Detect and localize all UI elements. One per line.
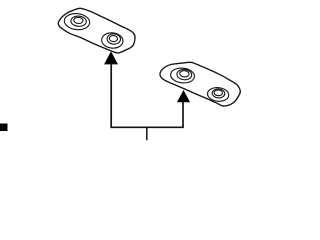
gasket 2 boss B outer ellipse xyxy=(207,87,230,103)
gasket 2 boss A middle ellipse xyxy=(177,69,192,80)
gasket plate 1 outline xyxy=(58,8,135,53)
gasket 1 boss A outer ellipse xyxy=(64,12,91,31)
gasket 1 boss A inner hole xyxy=(74,17,84,24)
arrowhead 2 (points up at gasket 2) xyxy=(177,90,190,102)
gasket plate 2 outline xyxy=(160,62,240,106)
gasket 1 boss B middle ellipse xyxy=(107,33,121,44)
arrow 2 shaft xyxy=(182,101,184,127)
watermark block at left edge xyxy=(0,124,8,132)
gasket 1 boss B outer ellipse xyxy=(101,32,124,49)
gasket 1 boss B inner hole xyxy=(109,35,118,42)
gasket 2 boss B inner hole xyxy=(214,90,223,96)
gasket 2 boss B middle ellipse xyxy=(212,88,225,98)
gasket 1 boss A middle ellipse xyxy=(71,16,87,27)
arrow 1 shaft xyxy=(110,63,112,127)
arrowhead 1 (points up at gasket 1) xyxy=(104,51,118,64)
gasket 2 boss A outer ellipse xyxy=(170,67,195,84)
gasket 2 boss A inner hole xyxy=(180,70,190,77)
bracket horizontal line xyxy=(110,126,184,128)
bracket center tick (callout leader) xyxy=(146,127,148,140)
